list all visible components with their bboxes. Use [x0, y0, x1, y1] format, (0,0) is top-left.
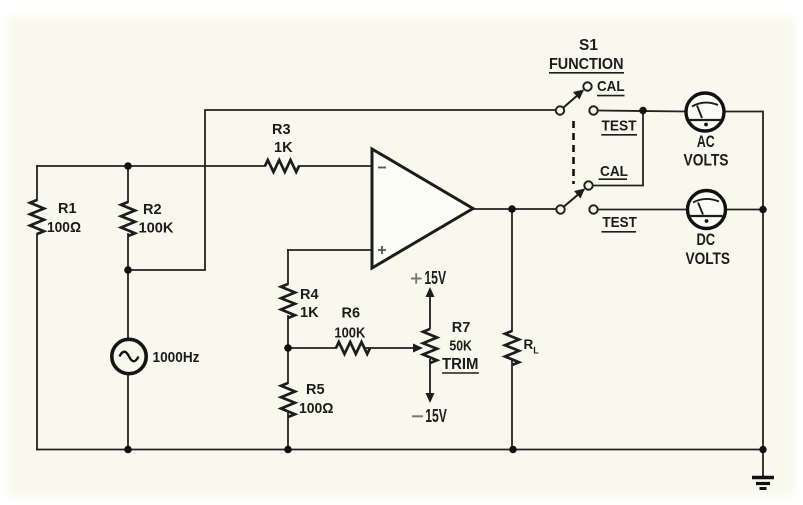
svg-text:CAL: CAL [597, 78, 625, 95]
wire AC meter to right rail [724, 112, 763, 450]
potentiometer R7 [423, 295, 437, 395]
resistor R3 [265, 160, 299, 172]
resistor R1 [30, 200, 44, 234]
node R5 bottom [284, 446, 292, 454]
wire bottom ground rail [37, 449, 763, 451]
node source bottom [124, 446, 132, 454]
svg-text:50K: 50K [449, 339, 472, 355]
node R2 top [124, 162, 132, 170]
resistor R5 [281, 383, 295, 417]
node TEST1 junction [639, 107, 647, 115]
node DC meter rail [759, 206, 767, 214]
wire R2 branch [127, 166, 129, 270]
ground [752, 478, 774, 489]
svg-text:R5: R5 [306, 382, 325, 398]
svg-text:1000Hz: 1000Hz [153, 350, 200, 366]
wire cal sense branch [128, 110, 556, 270]
wire left vertical branch [36, 166, 38, 450]
svg-text:TRIM: TRIM [442, 356, 479, 373]
switch S1 contact CAL1 [583, 82, 591, 90]
switch S1 contact CAL2 [584, 181, 592, 189]
wire TEST1 to AC meter [598, 111, 686, 112]
svg-text:FUNCTION: FUNCTION [549, 56, 624, 73]
svg-text:VOLTS: VOLTS [684, 152, 729, 170]
node op-amp output [508, 205, 516, 213]
R7 wiper arrow [413, 344, 423, 353]
wire R4 R5 chain [287, 250, 289, 450]
svg-text:15V: 15V [425, 406, 447, 426]
label -15V [412, 415, 423, 417]
svg-text:VOLTS: VOLTS [686, 250, 731, 268]
svg-text:100Ω: 100Ω [47, 219, 81, 236]
svg-text:AC: AC [697, 133, 715, 151]
svg-text:CAL: CAL [600, 163, 628, 180]
svg-text:TEST: TEST [602, 118, 637, 135]
switch S1 contact TEST1 [589, 106, 597, 114]
svg-text:R2: R2 [143, 202, 162, 218]
wire op-amp output [473, 208, 556, 210]
wire source branch [127, 270, 129, 450]
switch S1 mechanical link [572, 121, 575, 184]
switch S1 pole 2 common [556, 205, 564, 213]
svg-text:S1: S1 [579, 37, 598, 54]
svg-text:R3: R3 [272, 122, 291, 138]
wire DC meter to right rail [726, 209, 763, 211]
label +15V [411, 273, 422, 283]
resistor R2 [121, 202, 135, 236]
svg-text:100K: 100K [139, 220, 174, 237]
svg-text:R6: R6 [342, 306, 361, 322]
svg-text:1K: 1K [274, 140, 293, 156]
node ground rail [759, 446, 766, 453]
svg-text:100Ω: 100Ω [299, 401, 334, 417]
switch S1 pole 2 arm [564, 190, 584, 207]
wire non-inverting input [288, 249, 372, 251]
wire RL branch [511, 209, 513, 450]
switch S1 pole 1 common [556, 106, 564, 114]
resistor RL [505, 331, 519, 365]
svg-text:100K: 100K [334, 326, 365, 342]
switch S1 contact TEST2 [589, 205, 597, 213]
svg-text:R1: R1 [58, 201, 77, 217]
resistor R6 [336, 342, 370, 354]
op-amp U1 inverting input mark [378, 167, 386, 169]
wire TEST2 to DC meter [598, 209, 687, 211]
svg-text:TEST: TEST [602, 214, 636, 231]
R7 down arrow to -15V [426, 393, 435, 403]
wire R6 branch [288, 347, 417, 349]
meter M1 AC volts [686, 93, 724, 131]
node RL bottom [509, 446, 517, 454]
meter M2 DC volts [688, 191, 726, 229]
node R4 R5 junction [284, 344, 292, 352]
svg-text:R7: R7 [452, 320, 471, 336]
svg-text:DC: DC [697, 231, 716, 249]
switch S1 pole 1 arm [564, 91, 584, 108]
svg-text:R4: R4 [300, 287, 319, 303]
wire ground stub [762, 450, 764, 477]
svg-text:15V: 15V [424, 268, 446, 288]
source V1 1000Hz [112, 339, 146, 373]
svg-text:1K: 1K [300, 305, 319, 321]
resistor R4 [281, 284, 295, 318]
wire main input horizontal left segment [37, 165, 265, 167]
R7 up arrow to +15V [426, 287, 435, 297]
wire CAL2 link to AC node [593, 111, 643, 186]
op-amp U1 non-inverting input mark [378, 246, 386, 254]
node R2 bottom [124, 266, 132, 274]
op-amp U1 [372, 149, 473, 268]
wire R3 to op-amp inverting input [299, 165, 372, 167]
